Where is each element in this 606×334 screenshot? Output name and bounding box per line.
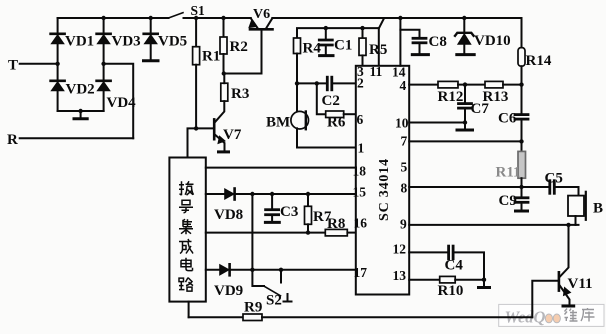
resistor R1 [193, 18, 200, 128]
wire pin16 line [206, 232, 325, 234]
svg-text:VD10: VD10 [474, 33, 511, 49]
resistor R13 [485, 81, 503, 88]
svg-text:V7: V7 [223, 127, 242, 143]
transistor V7 [214, 119, 228, 151]
svg-text:R2: R2 [230, 39, 248, 55]
svg-text:VD9: VD9 [214, 283, 243, 299]
node pin4 rail junction [519, 82, 523, 86]
wire V11 base to bottom rail [532, 281, 558, 318]
wire right rail R14 to C6 [521, 85, 523, 114]
svg-text:C6: C6 [498, 111, 517, 127]
node pin14 rail junction [398, 16, 402, 20]
char 拨 [179, 181, 194, 195]
wire pin11 lead [378, 28, 380, 66]
node speaker-V11 junction [566, 223, 570, 227]
capacitor C5 [550, 181, 579, 196]
wire bottom rail right of R9 [262, 316, 532, 318]
svg-text:1: 1 [358, 141, 365, 156]
capacitor C6 [515, 115, 528, 120]
node C4-R10 junction [482, 278, 486, 282]
capacitor C4 [449, 246, 484, 280]
capacitor C2 [327, 77, 356, 90]
svg-text:VD8: VD8 [214, 207, 243, 223]
node R7-pin16 junction [306, 230, 310, 234]
ground below VD5 [144, 59, 159, 62]
wire R6 to pin6 [344, 113, 356, 115]
svg-text:C2: C2 [322, 93, 340, 109]
svg-text:6: 6 [357, 112, 364, 127]
svg-text:BM: BM [266, 115, 290, 131]
IC U1 box [356, 66, 409, 295]
node pin17-S2 right junction [279, 268, 283, 272]
svg-text:C5: C5 [545, 171, 563, 187]
svg-text:16: 16 [354, 216, 368, 231]
resistor R3 [215, 74, 228, 123]
wire pin12 line [409, 251, 448, 253]
speaker B [568, 192, 586, 225]
wire C8 connector [400, 30, 419, 38]
wire pin7 line [409, 140, 521, 142]
svg-text:17: 17 [354, 265, 368, 280]
resistor R6 [326, 111, 344, 118]
diode VD3 [97, 18, 111, 64]
node pin7 rail junction [519, 139, 523, 143]
svg-text:S2: S2 [266, 293, 282, 309]
node pin15-R7 junction [306, 192, 310, 196]
svg-text:R6: R6 [327, 115, 346, 131]
svg-text:T: T [8, 58, 18, 74]
wire right rail C6 to R11 [521, 120, 523, 151]
watermark box [499, 304, 604, 326]
watermark oo dots [545, 314, 552, 323]
svg-text:8: 8 [401, 181, 408, 196]
diode VD1 [51, 18, 65, 64]
wire pin10 line [409, 122, 465, 124]
resistor R9 [243, 314, 262, 321]
char 路 [179, 278, 193, 292]
node R2 top junction [221, 16, 225, 20]
svg-text:7: 7 [401, 134, 408, 149]
char 号 [179, 200, 193, 213]
wire pin13 line [409, 279, 440, 281]
wire pin15 line VD8 to IC [236, 193, 356, 195]
resistor R14 [518, 48, 525, 85]
svg-text:R10: R10 [438, 283, 464, 299]
wire pin18 line [206, 167, 356, 169]
wire pin17 line block to VD9 [206, 269, 220, 271]
diode VD9 [220, 264, 230, 275]
capacitor C1 [319, 28, 333, 55]
wire bridge bottom [58, 110, 104, 112]
wire R8 to IC [347, 232, 355, 234]
resistor R11 [518, 151, 526, 187]
node VD3 top junction [101, 16, 105, 20]
node pin10-C7 junction [463, 120, 467, 124]
node S1 output junction [194, 16, 198, 20]
wire pin8 line [409, 186, 549, 188]
wire bottom rail left of R9 [189, 316, 243, 318]
svg-text:C1: C1 [334, 38, 352, 54]
diode VD5 [144, 18, 158, 60]
svg-text:B: B [593, 201, 603, 217]
wire R6 branch [317, 83, 326, 114]
svg-text:C3: C3 [280, 204, 298, 220]
resistor R12 [438, 81, 458, 88]
node pin15-C3 junction [270, 192, 274, 196]
wire pin14 lead [399, 18, 401, 66]
wire pin4 line [409, 84, 438, 86]
ground below C7 [457, 123, 473, 131]
wire pin1 line [297, 147, 356, 149]
node VD5 top junction [149, 16, 153, 20]
svg-text:R: R [7, 132, 18, 148]
svg-text:R14: R14 [526, 53, 552, 69]
node bridge bottom junction [78, 109, 82, 113]
diode VD8 [225, 189, 235, 200]
node C2 wire left junction [295, 81, 299, 85]
svg-text:VD2: VD2 [66, 82, 95, 98]
capacitor C7 [459, 85, 472, 123]
svg-text:10: 10 [395, 116, 409, 131]
resistor R5 [359, 28, 366, 66]
char 成 [179, 239, 193, 254]
capacitor C8 [412, 38, 428, 54]
node VD10 rail junction [462, 16, 466, 20]
node pin8 rail junction [519, 185, 523, 189]
resistor R8 [325, 229, 347, 236]
svg-text:18: 18 [353, 164, 367, 179]
wire top rail V6 to right corner [272, 17, 521, 19]
svg-text:5: 5 [401, 160, 408, 175]
wire block bottom lead [188, 302, 190, 318]
resistor R2 [220, 18, 227, 74]
svg-text:V11: V11 [568, 276, 593, 292]
zener diode VD10 [455, 18, 474, 55]
svg-text:R11: R11 [496, 165, 521, 181]
svg-text:C8: C8 [429, 34, 447, 50]
microphone BM [291, 111, 309, 147]
resistor R4 [294, 38, 301, 112]
node T junction [55, 62, 59, 66]
block text dialing IC characters [179, 181, 194, 291]
svg-text:C7: C7 [471, 101, 490, 117]
svg-text:9: 9 [400, 217, 407, 232]
svg-text:R3: R3 [231, 86, 249, 102]
svg-text:4: 4 [400, 78, 407, 93]
char 集 [179, 219, 193, 234]
svg-text:R1: R1 [202, 49, 220, 65]
wire R10 to C4 junction [455, 279, 484, 281]
diode VD4 [97, 64, 111, 111]
transistor V11 [559, 225, 574, 306]
ground below C4-R10 junction [479, 280, 490, 288]
block dialing IC box [169, 158, 205, 302]
svg-text:11: 11 [370, 64, 383, 79]
node R1 bottom junction [194, 126, 198, 130]
node R5 top junction [360, 26, 364, 30]
wire R1 junction to V7 base and block [188, 128, 214, 157]
resistor R7 [305, 194, 312, 233]
capacitor C3 [265, 194, 279, 222]
wire R13 to right rail [503, 84, 522, 86]
wire pin9 line [409, 224, 578, 226]
diode VD2 [51, 64, 65, 111]
node R2-R3-V6 junction [222, 71, 226, 75]
switch S2 [252, 270, 281, 296]
svg-text:SC 34014: SC 34014 [377, 158, 392, 221]
ground below bridge [74, 111, 87, 119]
transistor V6 [249, 18, 273, 73]
svg-text:2: 2 [357, 76, 364, 91]
wire terminal T [20, 63, 58, 65]
svg-text:C4: C4 [445, 258, 464, 274]
ground mark after S2 [284, 294, 292, 302]
svg-text:VD5: VD5 [158, 34, 187, 50]
wire pin17 line VD9 to IC [231, 269, 356, 271]
node C1 top junction [324, 26, 328, 30]
svg-text:12: 12 [393, 242, 407, 257]
wire terminal R [20, 137, 134, 139]
watermark char ku [581, 308, 595, 322]
switch S1 blade [169, 13, 184, 18]
wire R12 to R13 [458, 84, 485, 86]
node pin17-S2 left junction [250, 268, 254, 272]
svg-text:R8: R8 [327, 216, 345, 232]
wire sub rail R4 C1 R5 [297, 18, 384, 38]
wire top rail S1 to V6 [184, 17, 251, 19]
svg-text:VD4: VD4 [107, 95, 137, 111]
wire right rail top corner [521, 18, 523, 48]
svg-text:VD3: VD3 [112, 34, 141, 50]
watermark char wei [565, 309, 578, 322]
wire pin2 line left part [297, 82, 327, 84]
wire R2 junction to V6 base [224, 73, 262, 75]
wire top rail left segment [58, 17, 169, 19]
node pin15-S2 junction [250, 192, 254, 196]
node VD3-VD4 junction [101, 62, 105, 66]
node R6 branch junction [315, 81, 319, 85]
svg-text:13: 13 [393, 268, 407, 283]
wire vertical pin15 to pin17 [251, 194, 253, 270]
wire bridge node to R line [104, 64, 134, 138]
char 电 [181, 258, 193, 271]
svg-text:VD1: VD1 [65, 34, 94, 50]
node C7 top junction [463, 82, 467, 86]
svg-text:V6: V6 [253, 7, 270, 22]
wire pin15 line block to VD8 [206, 193, 225, 195]
svg-text:S1: S1 [191, 3, 206, 18]
svg-text:C9: C9 [499, 193, 517, 209]
resistor R10 [440, 276, 456, 283]
svg-text:15: 15 [353, 185, 367, 200]
svg-text:R9: R9 [244, 300, 262, 316]
capacitor C9 [515, 187, 528, 211]
